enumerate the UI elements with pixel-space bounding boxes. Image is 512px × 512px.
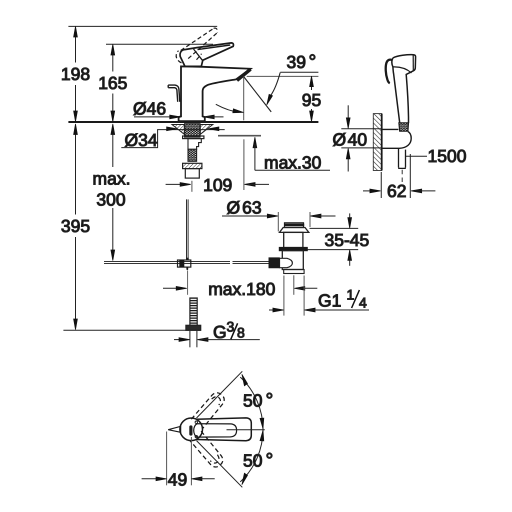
stream vertical extension line [243,77,245,191]
svg-text:109: 109 [203,175,232,195]
stream angle diagonal [244,77,271,112]
node: reference line top (198 level) [68,25,217,27]
curved flow arrow under spout [216,104,239,112]
svg-text:165: 165 [98,73,127,93]
small dots on lever base [195,421,197,423]
dimension 35-45 [308,213,359,265]
dimension 49 [142,432,215,486]
dimension max.30 [253,137,330,170]
lever inner outline [194,424,237,437]
drain bottom ring [284,270,304,274]
39deg underline leader [280,71,318,73]
pop-up drain waste: knob [285,223,304,228]
faucet lever top slot line [198,45,231,50]
hex mounting nut [183,163,202,168]
dimension Ø40 [341,105,381,171]
svg-text:Ø46: Ø46 [133,98,166,118]
faucet lever inner edge line [194,49,203,60]
svg-text:49: 49 [168,469,187,489]
wall holder bracket [382,129,412,148]
svg-text:Ø40: Ø40 [333,130,368,150]
dimension 109 [166,181,269,192]
svg-text:Ø63: Ø63 [227,198,262,218]
pull rod lower tip [186,267,188,270]
dimension G1 1/4 [269,276,369,316]
svg-text:39°: 39° [287,51,317,73]
hose nut (dark) [399,123,409,131]
drain flange [280,228,309,233]
svg-text:max.30: max.30 [264,152,322,172]
svg-text:4: 4 [359,295,367,311]
dimension max.300 [111,124,115,261]
mounting plate [183,136,204,139]
drain lever block [280,258,293,267]
svg-text:max.180: max.180 [208,279,275,299]
svg-text:395: 395 [61,216,90,236]
svg-text:G: G [213,322,227,342]
horizontal actuating rod [104,262,269,264]
faucet pop-up rod knob (hook at left) [168,85,180,102]
faucet aerator dark wedge at spout tip [237,69,251,80]
pop-up pull rod [187,199,189,259]
svg-text:35-45: 35-45 [325,230,370,250]
node: bottom reference line (395 level) [63,329,200,331]
drain lower body [282,251,303,270]
node: deck underside line (max.30) [218,135,261,137]
trigger lever [386,60,393,84]
shank end tube [185,169,199,179]
hose below holder [399,148,406,168]
svg-text:max.: max. [93,169,131,189]
hand shower head outline [392,55,416,123]
horizontal centerline [227,429,265,431]
lever pivot slot (black) [189,425,192,435]
node: reference line handle-top (165 level) [106,43,213,45]
arc leader from 39deg label [271,73,281,96]
svg-text:G1: G1 [318,291,341,311]
mounting washer wedge left (hatched) [172,125,184,135]
G3/8 threaded hose end [190,298,197,325]
faucet U1: body and spout outline [179,66,251,121]
stepped cone [188,139,201,150]
svg-text:95: 95 [302,90,321,110]
lever body [197,418,252,441]
max.180 left extension line [187,271,189,295]
95 extension line (spout outlet level) [247,75,319,77]
drain gasket (dark) [279,247,308,251]
faucet lever open position (dashed) [176,28,217,63]
faucet lever handle (closed) [180,43,233,67]
G3/8 tube extension lines [190,331,197,348]
threaded bolt [188,149,197,161]
lower 50deg ray [197,441,243,488]
dimension G3/8 [174,338,260,342]
head panel arc [393,67,412,73]
dimension 95 [310,76,314,122]
dimension 198 [74,26,78,121]
dimension Ø34 arrows [167,127,178,131]
G3/8 end flange [186,325,201,330]
lever dashed position down 50deg [190,431,226,470]
hose continuation dashes [401,170,403,185]
pull rod to horizontal rod clamp [178,260,191,267]
lower swing arc [240,430,263,482]
dimension 165 [111,44,115,121]
threaded shank (knurled) [185,124,200,137]
spout tip (top view) pointing left [168,426,181,432]
svg-text:198: 198 [61,64,90,84]
lever dashed position up 50deg [191,390,227,429]
dimension max.180 [163,275,317,295]
node: basin deck line [68,121,318,123]
drain upper body [284,232,303,247]
svg-text:1: 1 [347,287,355,303]
dimension 62 [363,154,435,198]
svg-text:50°: 50° [243,390,273,412]
svg-text:50°: 50° [243,450,273,472]
wall section (hatched) [373,114,381,171]
svg-text:62: 62 [387,181,406,201]
mounting washer wedge right (hatched) [200,125,213,135]
lever knob circle [180,418,203,441]
dimension 395 [74,124,78,330]
upper swing arc [240,377,263,429]
svg-text:1500: 1500 [428,146,467,166]
upper 50deg ray [197,371,243,418]
wall face line [381,114,383,171]
svg-text:300: 300 [96,190,125,210]
svg-text:8: 8 [237,325,245,341]
spray face inner line [412,55,414,71]
label 1500 leader [406,155,427,157]
